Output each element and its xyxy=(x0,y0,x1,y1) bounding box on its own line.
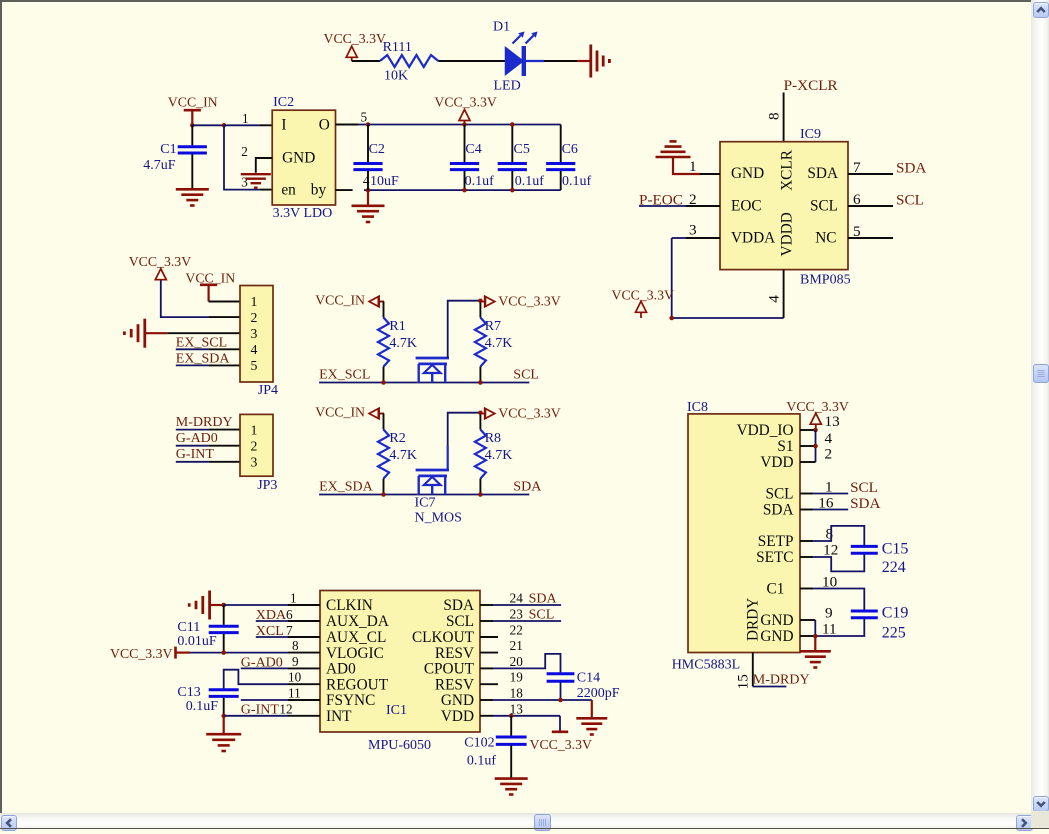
pin 2 of JP4 xyxy=(209,316,240,318)
svg-text:VCC_3.3V: VCC_3.3V xyxy=(324,31,387,46)
junction xyxy=(813,428,818,433)
wire +3.3V rail xyxy=(368,124,561,126)
svg-text:JP4: JP4 xyxy=(258,383,278,398)
net EX_SCL xyxy=(319,368,370,383)
ground (IC9 GND, flipped) xyxy=(656,141,691,157)
junction xyxy=(221,650,226,655)
junction xyxy=(462,122,467,127)
svg-text:0.1uF: 0.1uF xyxy=(186,699,219,714)
svg-text:S1: S1 xyxy=(777,438,793,455)
svg-text:SCL: SCL xyxy=(513,368,539,383)
wire xyxy=(352,60,380,62)
JP4 designator xyxy=(258,383,278,398)
wire xyxy=(383,414,385,430)
capacitor C14 xyxy=(547,674,575,700)
net EX_SDA xyxy=(176,352,231,367)
svg-text:5: 5 xyxy=(251,358,258,373)
C13 designator xyxy=(177,685,200,700)
ground (C102) xyxy=(495,779,528,795)
wire xyxy=(358,124,368,126)
pin 12 of IC1 xyxy=(279,702,320,717)
svg-text:M-DRDY: M-DRDY xyxy=(753,672,810,687)
svg-text:C4: C4 xyxy=(465,142,481,157)
wire xyxy=(224,715,288,717)
capacitor C11 xyxy=(209,605,239,653)
svg-text:IC1: IC1 xyxy=(386,703,407,718)
svg-text:9: 9 xyxy=(292,654,299,669)
net SCL (IC1) xyxy=(529,607,555,622)
capacitor C5 xyxy=(498,125,527,191)
pin 13 of IC1 xyxy=(480,702,523,717)
svg-text:LED: LED xyxy=(494,79,521,94)
net SCL (IC9) xyxy=(896,192,924,209)
pin 3 of IC2 xyxy=(241,174,272,189)
IC1 designator xyxy=(386,703,407,718)
svg-text:GND: GND xyxy=(731,165,764,182)
C1 designator xyxy=(160,142,176,157)
transistor Q (N-MOS) xyxy=(416,358,449,383)
svg-text:P-XCLR: P-XCLR xyxy=(784,77,839,94)
C2 value 10uF xyxy=(370,174,399,189)
svg-text:C15: C15 xyxy=(882,541,909,558)
horizontal scrollbar track xyxy=(0,813,1031,829)
svg-text:4.7uF: 4.7uF xyxy=(143,158,176,173)
svg-text:224: 224 xyxy=(882,559,906,576)
svg-text:5: 5 xyxy=(361,110,368,125)
wire xyxy=(417,494,529,496)
vertical scrollbar track xyxy=(1031,0,1049,813)
power arrow VCC_3.3V JP4 xyxy=(155,269,166,280)
net XCL xyxy=(256,624,284,639)
R7 designator xyxy=(485,319,501,334)
C19 designator xyxy=(882,605,909,622)
svg-text:3: 3 xyxy=(251,455,258,470)
wire xyxy=(438,60,506,62)
junction xyxy=(669,316,674,321)
pin 23 of IC1 xyxy=(480,606,523,621)
net SDA xyxy=(513,480,542,495)
svg-text:3: 3 xyxy=(241,174,248,189)
wire EX_SCL xyxy=(319,382,417,384)
power bar VCC_3.3V (VDD) xyxy=(552,730,568,732)
wire xyxy=(672,237,686,239)
op-amp U1 regulator IC2 3.3V LDO xyxy=(272,110,335,205)
svg-text:3: 3 xyxy=(251,326,258,341)
svg-text:3.3V LDO: 3.3V LDO xyxy=(273,206,333,221)
power VCC_3.3V (IC9) xyxy=(612,287,675,302)
svg-text:0.1uf: 0.1uf xyxy=(515,174,545,189)
net XDA xyxy=(256,608,287,623)
R1 value 4.7K xyxy=(389,336,417,351)
svg-text:6: 6 xyxy=(286,607,293,622)
power arrow VCC_3.3V rail xyxy=(459,110,470,125)
svg-text:R111: R111 xyxy=(383,40,412,55)
ground (C13) xyxy=(206,716,241,751)
svg-text:SCL: SCL xyxy=(446,613,474,630)
C4 designator xyxy=(465,142,481,157)
pin 1 of IC9 xyxy=(689,158,720,175)
wire (drain) xyxy=(448,413,481,470)
pin 1 of JP3 xyxy=(209,429,240,431)
svg-text:JP3: JP3 xyxy=(257,478,277,493)
svg-text:VDD: VDD xyxy=(760,454,793,471)
window bottom border xyxy=(0,828,1049,830)
window top border xyxy=(0,0,1049,2)
power VCC_3.3V (VLOGIC) xyxy=(110,646,173,661)
svg-text:VLOGIC: VLOGIC xyxy=(326,645,384,662)
pin 4 of IC8 xyxy=(800,430,833,447)
C19 value 225 xyxy=(882,625,906,642)
wire GND xyxy=(493,699,592,701)
net SDA (IC9) xyxy=(896,160,926,177)
svg-text:7: 7 xyxy=(853,159,861,176)
svg-text:1: 1 xyxy=(251,294,258,309)
svg-text:RESV: RESV xyxy=(435,676,474,693)
svg-text:12: 12 xyxy=(823,541,838,558)
junction xyxy=(366,122,371,127)
power bar VCC_IN xyxy=(184,110,201,125)
net SCL (IC8) xyxy=(850,479,878,496)
svg-text:C14: C14 xyxy=(577,671,600,686)
svg-text:C19: C19 xyxy=(882,605,909,622)
svg-text:2: 2 xyxy=(241,144,248,159)
power VCC_3.3V (JP4) xyxy=(129,254,192,269)
svg-text:VCC_IN: VCC_IN xyxy=(185,270,235,285)
window left border xyxy=(0,0,2,813)
pin 11 of IC8 xyxy=(800,620,837,637)
IC9 value BMP085 xyxy=(800,273,851,288)
C102 designator xyxy=(464,736,494,751)
power VCC_3.3V (R8) xyxy=(498,405,561,420)
IC8 value HMC5883L xyxy=(672,657,740,672)
pin 7 of IC1 xyxy=(286,623,320,638)
wire VDDA to 3.3V xyxy=(672,238,784,318)
wire EX_SDA xyxy=(319,494,417,496)
power VCC_IN (R1) xyxy=(315,293,365,308)
wire xyxy=(161,280,209,317)
svg-text:0.1uf: 0.1uf xyxy=(465,174,495,189)
svg-text:4.7K: 4.7K xyxy=(485,448,513,463)
op-amp U1 sensor IC1 MPU-6050 xyxy=(320,591,480,733)
pin 8 of IC9 xyxy=(766,93,784,142)
svg-text:EOC: EOC xyxy=(731,197,762,214)
wire SETC to C15 xyxy=(813,554,864,571)
net SCL xyxy=(513,368,539,383)
svg-text:VCC_3.3V: VCC_3.3V xyxy=(434,95,497,110)
svg-text:AD0: AD0 xyxy=(326,661,356,678)
svg-text:15: 15 xyxy=(735,674,752,689)
R1 designator xyxy=(389,319,405,334)
svg-text:N_MOS: N_MOS xyxy=(415,511,462,526)
pin 3 of IC9 xyxy=(686,222,720,239)
resistor R2 xyxy=(378,430,389,479)
junction xyxy=(221,714,226,719)
svg-text:AUX_CL: AUX_CL xyxy=(326,629,386,646)
C1 value 4.7uF xyxy=(143,158,176,173)
IC2 value 3.3V LDO xyxy=(273,206,333,221)
resistor R1 xyxy=(378,318,389,367)
pin 18 of IC1 xyxy=(480,686,523,701)
wire XCL xyxy=(256,636,288,638)
pin 1 of JP4 xyxy=(209,301,240,303)
power arrow VCC_3.3V IC8 xyxy=(810,413,821,430)
op-amp U8 sensor IC8 HMC5883L xyxy=(688,414,800,653)
junction xyxy=(366,188,371,193)
wire P-EOC xyxy=(639,205,686,207)
svg-text:11: 11 xyxy=(288,686,301,701)
svg-text:13: 13 xyxy=(825,413,840,430)
C14 value 2200pF xyxy=(577,686,620,701)
power arrow VCC_3.3V R8 xyxy=(480,408,495,419)
svg-text:4: 4 xyxy=(251,342,258,357)
svg-text:SCL: SCL xyxy=(529,607,555,622)
wire xyxy=(813,619,864,636)
ground (IC8 GND) xyxy=(800,636,831,668)
wire M-DRDY xyxy=(176,429,209,431)
svg-text:G-INT: G-INT xyxy=(241,703,280,718)
power VCC_3.3V (VDD) xyxy=(530,737,593,752)
IC1 value MPU-6050 xyxy=(368,738,431,753)
pin 11 of IC1 xyxy=(288,686,320,701)
wire G-AD0 xyxy=(241,667,288,669)
svg-text:CLKOUT: CLKOUT xyxy=(412,629,475,646)
diode D1 LED xyxy=(506,32,545,77)
svg-text:EX_SDA: EX_SDA xyxy=(319,480,374,495)
C5 value 0.1uf xyxy=(515,174,545,189)
svg-text:1: 1 xyxy=(689,158,697,175)
svg-text:SDA: SDA xyxy=(529,592,558,607)
svg-text:VCC_3.3V: VCC_3.3V xyxy=(530,737,593,752)
svg-text:1: 1 xyxy=(290,591,297,606)
net G-INT (JP3) xyxy=(176,447,215,462)
svg-text:R8: R8 xyxy=(485,431,501,446)
svg-text:I: I xyxy=(281,116,286,133)
wire bottom rail xyxy=(364,189,561,191)
pin 12 of IC8 xyxy=(800,541,838,558)
svg-text:EX_SCL: EX_SCL xyxy=(319,368,370,383)
wire xyxy=(224,125,260,189)
pin 15 of IC8 xyxy=(735,653,753,690)
capacitor C15 xyxy=(851,546,878,553)
vertical scrollbar thumb xyxy=(1033,364,1049,383)
svg-text:9: 9 xyxy=(825,604,833,621)
svg-text:VDDD: VDDD xyxy=(779,212,796,256)
C2 designator xyxy=(369,142,385,157)
wire xyxy=(544,60,577,62)
pin 22 of IC1 xyxy=(480,623,523,638)
svg-text:FSYNC: FSYNC xyxy=(326,692,375,709)
pin 2 of IC9 xyxy=(686,191,720,208)
junction xyxy=(813,634,818,639)
pin 8 of IC8 xyxy=(800,525,834,542)
svg-text:C2: C2 xyxy=(369,142,385,157)
junction xyxy=(381,380,386,385)
scrollbar right button xyxy=(1016,815,1033,832)
svg-text:SDA: SDA xyxy=(763,502,794,519)
wire xyxy=(192,124,224,126)
power VCC_3.3V (LED circuit) xyxy=(324,31,387,46)
svg-text:225: 225 xyxy=(882,625,906,642)
power bar VCC_IN JP4 xyxy=(200,285,217,302)
power VCC_3.3V (rail) xyxy=(434,95,497,110)
wire xyxy=(673,157,700,174)
svg-text:VCC_3.3V: VCC_3.3V xyxy=(612,287,675,302)
svg-text:M-DRDY: M-DRDY xyxy=(176,415,233,430)
capacitor C1 xyxy=(178,125,207,188)
R8 designator xyxy=(485,431,501,446)
pin 1 of IC1 xyxy=(288,591,320,606)
C5 designator xyxy=(514,142,530,157)
C11 value 0.01uF xyxy=(177,634,217,649)
power arrow VCC_IN R2 xyxy=(369,408,384,419)
svg-text:0.1uf: 0.1uf xyxy=(467,754,497,769)
wire (drain) xyxy=(448,301,481,358)
svg-text:10uF: 10uF xyxy=(370,174,399,189)
svg-text:1: 1 xyxy=(251,422,258,437)
svg-text:D1: D1 xyxy=(493,20,510,35)
svg-text:2: 2 xyxy=(251,439,258,454)
pin 8 of IC1 xyxy=(288,638,320,653)
net G-AD0 (JP3) xyxy=(176,431,218,446)
junction xyxy=(510,188,515,193)
junction xyxy=(381,492,386,497)
wire SCL xyxy=(813,493,848,495)
wire REGOUT to C13 xyxy=(224,670,288,689)
C6 value 0.1uf xyxy=(562,174,592,189)
svg-text:6: 6 xyxy=(853,191,861,208)
pin 20 of IC1 xyxy=(480,654,523,669)
svg-text:C6: C6 xyxy=(562,142,578,157)
ground (IC1 GND) xyxy=(576,700,607,735)
svg-text:GND: GND xyxy=(760,628,793,645)
svg-text:R7: R7 xyxy=(485,319,501,334)
pin 6 of IC9 xyxy=(848,191,893,208)
pin 10 of IC1 xyxy=(288,670,320,685)
pin 7 of IC9 xyxy=(848,159,893,176)
pin 16 of IC8 xyxy=(800,494,834,511)
pin 9 of IC1 xyxy=(288,654,320,669)
net M-DRDY (JP3) xyxy=(176,415,233,430)
junction xyxy=(478,298,483,303)
svg-text:RESV: RESV xyxy=(435,645,474,662)
capacitor C2 xyxy=(353,125,382,191)
svg-text:CLKIN: CLKIN xyxy=(326,597,373,614)
svg-text:SCL: SCL xyxy=(765,486,793,503)
svg-text:12: 12 xyxy=(279,702,292,717)
pin 21 of IC1 xyxy=(480,638,523,653)
IC9 designator xyxy=(800,127,821,142)
pin 1 of IC8 xyxy=(800,478,833,495)
junction xyxy=(813,444,818,449)
IC7 designator xyxy=(415,496,436,511)
svg-text:21: 21 xyxy=(510,638,523,653)
R2 value 4.7K xyxy=(389,448,417,463)
svg-text:REGOUT: REGOUT xyxy=(326,676,389,693)
svg-text:VCC_3.3V: VCC_3.3V xyxy=(129,254,192,269)
scrollbar corner xyxy=(1031,811,1049,829)
svg-text:20: 20 xyxy=(510,654,524,669)
C14 designator xyxy=(577,671,600,686)
wire G-AD0 xyxy=(176,445,209,447)
svg-text:CPOUT: CPOUT xyxy=(424,661,475,678)
svg-text:IC8: IC8 xyxy=(687,400,708,415)
svg-text:22: 22 xyxy=(510,623,523,638)
power arrow VCC_3.3V R7 xyxy=(480,296,495,307)
scrollbar left button xyxy=(1,815,18,832)
ground (JP4 pin3) xyxy=(124,319,167,348)
svg-text:8: 8 xyxy=(766,112,783,120)
junction xyxy=(478,492,483,497)
wire xyxy=(383,367,385,383)
R111 value 10K xyxy=(384,69,408,84)
svg-text:11: 11 xyxy=(822,620,837,637)
wire VDD xyxy=(493,715,560,717)
svg-text:DRDY: DRDY xyxy=(744,598,761,641)
R7 value 4.7K xyxy=(485,336,513,351)
net P-XCLR xyxy=(784,77,839,94)
C15 designator xyxy=(882,541,909,558)
junction xyxy=(221,603,226,608)
ground (LED cathode) xyxy=(577,45,609,78)
svg-text:0.1uf: 0.1uf xyxy=(562,174,592,189)
svg-text:5: 5 xyxy=(853,223,861,240)
junction xyxy=(462,188,467,193)
connector JP4 xyxy=(240,286,273,383)
net EX_SDA xyxy=(319,480,374,495)
svg-text:4: 4 xyxy=(766,295,783,303)
svg-text:VCC_3.3V: VCC_3.3V xyxy=(498,293,561,308)
power VCC_3.3V (IC8) xyxy=(786,399,849,414)
resistor R111 xyxy=(380,55,438,67)
net G-INT (IC1) xyxy=(241,703,280,718)
svg-text:7: 7 xyxy=(286,623,293,638)
C15 value 224 xyxy=(882,559,906,576)
svg-text:SDA: SDA xyxy=(896,160,926,177)
svg-text:C11: C11 xyxy=(177,620,200,635)
svg-text:VDD: VDD xyxy=(441,708,474,725)
svg-text:SCL: SCL xyxy=(850,479,878,496)
svg-text:SDA: SDA xyxy=(807,165,838,182)
svg-text:1: 1 xyxy=(242,111,249,126)
svg-text:GND: GND xyxy=(441,692,474,709)
wire xyxy=(190,652,288,654)
pin 3 of JP4 xyxy=(167,332,240,334)
power VCC_IN (R2) xyxy=(315,405,365,420)
C102 value 0.1uf xyxy=(467,754,497,769)
pin 13 of IC8 xyxy=(800,413,840,430)
pin 10 of IC8 xyxy=(800,573,838,590)
junction xyxy=(478,380,483,385)
power arrow VCC_IN R1 xyxy=(369,296,384,307)
wire XDA xyxy=(256,620,288,622)
svg-text:SCL: SCL xyxy=(810,197,838,214)
svg-text:IC7: IC7 xyxy=(415,496,436,511)
horizontal scrollbar thumb xyxy=(534,814,552,831)
junction xyxy=(478,410,483,415)
pin 4 of IC9 xyxy=(766,270,784,318)
junction xyxy=(558,698,563,703)
wire xyxy=(814,620,816,636)
svg-text:2: 2 xyxy=(825,446,833,463)
svg-text:VCC_IN: VCC_IN xyxy=(168,94,218,109)
junction xyxy=(190,123,195,128)
svg-text:VCC_3.3V: VCC_3.3V xyxy=(786,399,849,414)
wire xyxy=(815,430,817,462)
C4 value 0.1uf xyxy=(465,174,495,189)
IC2 designator xyxy=(273,95,294,110)
wire C1 to C19 xyxy=(813,589,864,610)
wire xyxy=(559,716,561,731)
